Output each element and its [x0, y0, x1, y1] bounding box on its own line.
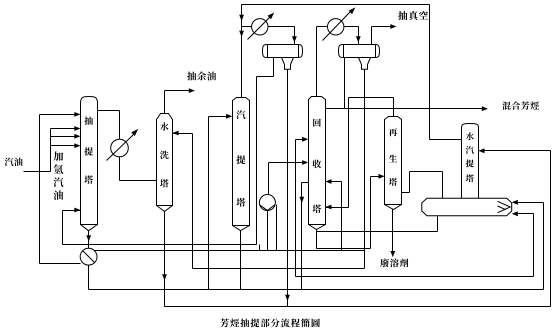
wire overhead frame top: [242, 4, 430, 6]
arrow into T5 feed: [379, 174, 385, 179]
wire vacuum line: [372, 26, 392, 28]
arrow into T4 upper return: [325, 179, 331, 184]
wire condenser1 outlet: [269, 26, 295, 28]
arrow reflux down a: [239, 15, 244, 21]
arrow into T6 right: [478, 148, 484, 153]
wire tower1 feed b: [51, 136, 76, 138]
label 混合芳烃 (mixed aromatics): [502, 101, 539, 109]
arrow condenser E2 arrow: [349, 7, 356, 14]
tower T4 回收塔 (recovery column): [309, 97, 326, 225]
wire tower1 top feed: [40, 114, 76, 116]
wire bottom water line y306: [165, 306, 551, 308]
arrow into T4 lower feed: [302, 160, 308, 165]
wire pump2 bottom drop: [88, 266, 90, 290]
drum D1 reflux drum: [263, 45, 303, 58]
wire tower5 overhead stub: [393, 98, 395, 117]
wire tower5 overhead top: [349, 97, 394, 99]
wire cooler outlet drop: [119, 157, 121, 181]
wire tower3 feed inlet: [209, 116, 228, 118]
label 抽真空 (to vacuum): [398, 11, 428, 20]
arrow into D2 top: [356, 36, 361, 42]
arrow into T1 feed b: [74, 134, 80, 139]
wire tower5 side draw: [402, 192, 410, 194]
condenser E2 (air cooler): [328, 19, 344, 35]
wire tower2 right inlet: [173, 133, 193, 135]
wire reboiler feed drop: [442, 172, 444, 199]
wire recycle line y268: [193, 268, 365, 270]
wire drum1 bottom outlet: [273, 58, 275, 77]
wire tower5 feed riser: [370, 177, 372, 249]
wire overhead frame right: [429, 5, 431, 140]
label 汽油 (gasoline): [5, 158, 23, 166]
wire pump3 suction drop: [267, 211, 269, 251]
arrow drum1 boot water down: [285, 295, 290, 301]
wire cooler inlet drop: [119, 111, 121, 140]
arrow waste solvent down: [390, 251, 395, 257]
wire pump3 side drop: [276, 205, 278, 251]
wire reflux return y244: [63, 244, 257, 246]
arrow into T1 top feed: [74, 112, 80, 117]
wire feed header x50: [50, 129, 52, 172]
wire vacuum riser: [371, 27, 373, 45]
label T4 回收塔: [312, 119, 321, 213]
arrow cooler E3 arrow: [131, 129, 138, 136]
label 抽余油 (raffinate oil): [187, 72, 216, 81]
wire tower5 bottom outlet: [392, 210, 394, 252]
wire tower2 feed line: [120, 180, 157, 182]
wire drum2 feed drop: [358, 27, 360, 45]
arrow into T1 feed a: [74, 126, 80, 131]
wire solvent riser x39: [39, 115, 41, 264]
label 废溶剂 (waste solvent): [380, 258, 408, 267]
arrow into D3 upper: [512, 200, 518, 205]
arrow into T4 upper feed: [302, 137, 308, 142]
wire bottoms return line y289 (pump2 bottom to reboiler upper return): [89, 289, 544, 291]
condenser E2 diagonal: [323, 12, 351, 41]
wire tower1 feed c: [51, 145, 76, 147]
wire drum1 boot drop: [287, 70, 289, 307]
wire tower2 bottom drop: [164, 212, 166, 307]
wire drum2 boot drop: [364, 70, 366, 269]
wire pump3 discharge riser: [268, 163, 270, 195]
wire reboiler lower return riser: [533, 214, 535, 277]
wire drum1 outlet jog: [257, 76, 274, 78]
arrow into T1 side inlet: [74, 208, 80, 213]
wire tower3 feed riser: [208, 117, 210, 290]
wire pump2 discharge y250: [95, 250, 365, 252]
arrow T2 bottoms down: [162, 274, 167, 280]
pump P2 solvent pump: [80, 248, 97, 265]
label T6 水汽提塔: [466, 132, 474, 182]
wire tower4 upper feed: [296, 139, 304, 141]
drum D2 vacuum drum: [339, 45, 380, 58]
wire drum2 bottom outlet drop: [344, 58, 346, 109]
wire tower5 side draw riser: [409, 172, 411, 193]
wire pump2 left line: [40, 263, 81, 265]
arrow into T1 feed c: [74, 143, 80, 148]
cooler E3: [111, 139, 129, 157]
tower T3 汽提塔 (stripper column): [233, 98, 250, 226]
arrow reflux down b: [239, 31, 244, 37]
wire drum1 reflux drop: [256, 77, 258, 245]
wire drum1 feed drop: [294, 27, 296, 45]
cooler E3 diagonal: [107, 135, 134, 161]
wire tower4 bottoms run: [317, 248, 371, 250]
wire tower6 reflux riser: [550, 151, 552, 307]
heating coil zigzag in D3: [498, 201, 511, 212]
arrow raffinate out: [189, 88, 195, 93]
wire reboiler bottoms run: [317, 231, 438, 233]
wire tower4 upper feed riser: [295, 140, 297, 277]
drum D3 reboiler / steam generator: [422, 198, 512, 216]
wire tower4 side draw: [302, 182, 309, 184]
wire gasoline feed: [24, 171, 51, 173]
tower T5 再生塔 (regeneration column): [385, 117, 402, 205]
wire tower1 overhead: [98, 110, 120, 112]
arrow vacuum out: [390, 24, 396, 29]
wire tower1 return riser: [62, 211, 64, 245]
wire reflux jog stub: [259, 245, 261, 251]
wire reboiler feed run: [410, 171, 443, 173]
wire tower5 overhead drop: [348, 98, 350, 208]
pump P3 vanes: [260, 205, 275, 211]
wire condenser2 outlet: [345, 26, 359, 28]
wire tower3 bottoms line: [240, 231, 242, 290]
wire tower1 bottom outlet: [88, 231, 90, 249]
wire tower4 bottom outlet: [316, 230, 318, 249]
wire tower6 left inlet: [430, 139, 462, 141]
tower T1 抽提塔 (extraction column): [81, 97, 98, 225]
wire tower1 side inlet: [63, 210, 81, 212]
arrow into D3 lower: [512, 211, 518, 216]
wire reboiler lower return inlet: [518, 213, 534, 215]
label T1 抽提塔: [84, 116, 93, 183]
wire tower6 reflux inlet: [484, 150, 551, 152]
wire tower2 overhead: [164, 91, 166, 114]
wire tower4 overhead riser: [316, 27, 318, 97]
tower T2 水洗塔 (water wash column): [157, 114, 173, 206]
condenser E1 diagonal: [248, 17, 271, 40]
tower T6 水汽提塔 (water stripper): [462, 124, 479, 199]
wire tower5 feed inlet: [371, 176, 380, 178]
caption 芳烃抽提部分流程简图: [220, 318, 319, 327]
pump P3 extract pump: [259, 195, 275, 211]
wire tower4 upper return: [326, 181, 342, 183]
wire tower4 lower feed: [269, 162, 304, 164]
label 加氢汽油 (hydrogenated gasoline): [54, 151, 64, 199]
pump P2 diagonal: [83, 251, 95, 263]
wire tower2 inlet drop: [192, 134, 194, 269]
wire reboiler bottom outlet: [437, 216, 439, 232]
wire tower1 feed a: [51, 128, 76, 130]
label T5 再生塔: [389, 128, 397, 186]
wire reboiler upper return riser: [543, 203, 545, 290]
arrow into T2 right: [172, 131, 178, 136]
wire reboiler upper return inlet: [518, 202, 544, 204]
wire recycle line y276: [296, 276, 534, 278]
wire condenser2 inlet: [317, 26, 328, 28]
wire overhead frame left (tower3 top line): [241, 5, 243, 99]
condenser E1 (air cooler): [252, 19, 268, 35]
wire raffinate line: [165, 90, 190, 92]
arrow into T4 lower return: [325, 205, 331, 210]
wire condenser1 inlet: [242, 26, 252, 28]
arrow mixed aromatics out: [482, 106, 488, 111]
wire mixed aromatics product line: [326, 108, 483, 110]
wire tower4 lower return: [326, 207, 349, 209]
arrow into T3 feed: [226, 114, 232, 119]
label T3 汽提塔: [236, 110, 245, 206]
arrow T1 bottom to pump: [86, 235, 91, 241]
wire tower4 side draw drop: [301, 183, 303, 290]
wire tower4 upper return drop: [341, 182, 343, 251]
arrow T4 side draw down: [299, 197, 304, 203]
arrow into D1 top: [292, 36, 297, 42]
label T2 水洗塔: [160, 122, 169, 187]
arrow condenser E1 arrow: [268, 13, 275, 20]
